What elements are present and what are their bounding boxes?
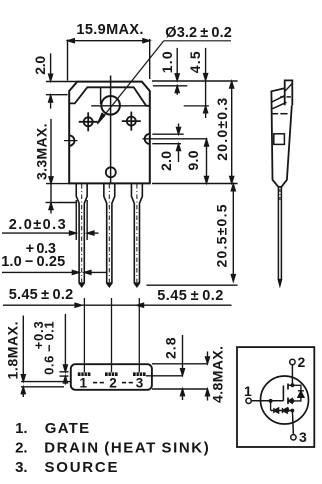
dim hole diameter 3.2 leader	[97, 41, 231, 124]
front view package outline	[69, 82, 150, 184]
dim 2.0 notch	[152, 124, 183, 163]
pin 1 terminal	[246, 398, 283, 403]
dim 0.6 lead thickness	[60, 314, 69, 385]
mosfet gate electrode	[282, 386, 284, 401]
dim 3.3MAX	[46, 119, 76, 214]
svg-text:9.0: 9.0	[185, 150, 201, 170]
svg-text:2.8: 2.8	[162, 337, 178, 359]
left side notch	[64, 135, 78, 145]
side view tab	[285, 80, 293, 105]
lead centerline connectors to bottom view	[84, 298, 139, 372]
symbol box outline	[237, 347, 314, 447]
dim 1.0 top-right	[153, 48, 187, 95]
dim 1.8MAX	[21, 316, 71, 398]
gate protection diodes	[271, 401, 293, 413]
dim 15.9MAX width	[68, 39, 150, 81]
svg-text:4.5: 4.5	[187, 51, 203, 73]
side view lead	[278, 187, 281, 285]
lead 2 (drain)	[104, 183, 115, 286]
svg-text:5.45 ± 0.2: 5.45 ± 0.2	[157, 288, 223, 304]
bottom view pin 2 cross-section	[105, 372, 118, 376]
front view boss edge line	[100, 87, 102, 104]
bottom view pin 3 cross-section	[133, 372, 146, 376]
bottom small circle	[106, 167, 116, 177]
lead 1 (gate)	[76, 183, 87, 286]
svg-text:1: 1	[79, 376, 87, 391]
mosfet drain stub	[288, 384, 292, 386]
front view vertical centerline	[110, 76, 112, 184]
lead 3 (source)	[131, 183, 142, 286]
svg-text:15.9MAX.: 15.9MAX.	[76, 22, 143, 38]
svg-text:20.0±0.3: 20.0±0.3	[214, 98, 230, 161]
dim 20.0 body height	[152, 81, 238, 184]
svg-text:2: 2	[109, 376, 117, 391]
svg-text:1.8MAX.: 1.8MAX.	[4, 322, 20, 380]
svg-text:GATE: GATE	[45, 420, 89, 437]
dim 9.0 notch to bottom	[143, 139, 209, 184]
svg-text:5.45 ± 0.2: 5.45 ± 0.2	[9, 287, 74, 303]
svg-text:DRAIN (HEAT SINK): DRAIN (HEAT SINK)	[44, 440, 209, 457]
front view hat profile line	[69, 87, 149, 106]
side view recess rectangle	[274, 134, 285, 145]
svg-text:2.0: 2.0	[158, 151, 174, 171]
svg-text:20.5±0.5: 20.5±0.5	[214, 204, 230, 267]
dim 1.0 lead narrow width	[2, 270, 107, 274]
dim 4.8MAX	[152, 352, 210, 401]
side view body	[271, 88, 291, 187]
pin 2 terminal	[290, 359, 295, 385]
svg-text:2: 2	[298, 354, 306, 370]
svg-text:3: 3	[136, 376, 144, 391]
svg-text:1.: 1.	[15, 420, 28, 437]
hole centerline extension right	[184, 105, 209, 107]
dim 5.45 lead pitch left	[3, 303, 232, 307]
svg-text:1: 1	[244, 383, 252, 399]
mosfet body stub with substrate arrow	[288, 399, 292, 404]
svg-text:2.0: 2.0	[32, 56, 48, 75]
junction dots	[269, 383, 295, 412]
bottom view pin numbers	[79, 376, 143, 391]
dim 2.0 top-left	[46, 53, 77, 108]
svg-text:0.6 − 0.1: 0.6 − 0.1	[42, 321, 57, 375]
bottom view outline	[71, 364, 152, 390]
svg-text:4.8MAX.: 4.8MAX.	[210, 346, 226, 403]
dim 20.5 lead length	[147, 184, 238, 285]
right side notch	[145, 134, 150, 144]
svg-text:3: 3	[299, 429, 307, 445]
hole horizontal centerline	[91, 105, 147, 107]
svg-text:2.: 2.	[15, 440, 28, 457]
dim 2.8	[146, 335, 185, 400]
right crosshair target	[122, 112, 141, 131]
mosfet source bottom line	[288, 410, 292, 412]
body diode branch	[292, 385, 304, 401]
side view dash-dot boundary lines	[272, 97, 291, 114]
bottom view dashes between pins	[93, 382, 133, 384]
dim 4.5 top-right	[204, 48, 208, 118]
svg-text:SOURCE: SOURCE	[45, 459, 118, 476]
bottom view pin 1 cross-section	[78, 372, 91, 376]
mosfet channel	[287, 384, 289, 413]
svg-text:3.: 3.	[15, 459, 28, 476]
side view chamfer lines	[272, 96, 287, 109]
pin 3 terminal	[291, 411, 296, 440]
svg-text:Ø3.2 ± 0.2: Ø3.2 ± 0.2	[165, 25, 232, 41]
svg-text:2.0±0.3: 2.0±0.3	[9, 217, 66, 233]
svg-text:3.3MAX.: 3.3MAX.	[34, 124, 50, 181]
svg-text:1.0 − 0.25: 1.0 − 0.25	[1, 254, 65, 270]
mounting hole circle	[101, 96, 120, 115]
svg-text:1.0: 1.0	[159, 51, 175, 73]
transistor circle	[261, 376, 309, 424]
dim 2.0 lead wide width	[2, 200, 99, 240]
left crosshair target	[79, 112, 98, 131]
